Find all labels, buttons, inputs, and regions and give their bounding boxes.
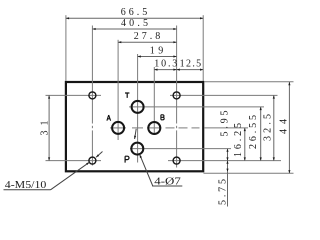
svg-text:5.75: 5.75 (217, 179, 228, 205)
extension line: plate right edge up (for 66.5 / 12.5) (202, 15, 204, 81)
dimension 16.25 line (right) (244, 128, 246, 161)
mounting hole top-right (173, 92, 180, 99)
label 4-M5/10 far-side arrow through hole (96, 152, 102, 158)
label 4-Ø7 far-side arrow above P (135, 129, 137, 139)
svg-text:27.8: 27.8 (134, 31, 161, 42)
extension line: plate bottom edge to the right (for 44 / 5.75) (204, 172, 294, 174)
label 4-Ø7 underline (152, 185, 182, 187)
mounting hole top-left (89, 92, 96, 99)
port letter T (125, 93, 129, 98)
centerline: left mounting holes vertical (x=92.4) (91, 26, 93, 124)
svg-text:4-M5/10: 4-M5/10 (5, 179, 47, 191)
port letter A (107, 115, 111, 121)
dimension 5.75 tail (227, 172, 229, 207)
svg-text:66.5: 66.5 (121, 7, 148, 18)
dimension 26.55 line (right) (260, 107, 262, 161)
svg-text:26.55: 26.55 (248, 115, 259, 149)
dimension 10.3 line (154, 69, 176, 71)
centerline: port B vertical (x=154.3) (153, 67, 155, 135)
centerline: ports A/B horizontal dashed (y=127.9) (110, 127, 126, 129)
mounting hole bottom-left (89, 157, 96, 164)
centerline: port A vertical (x=118.1) (117, 40, 119, 140)
label 4-Ø7 leader to port hole P (140, 155, 153, 186)
extension line: plate top edge to the right (for 44) (205, 81, 294, 83)
port hole A (112, 122, 124, 134)
svg-text:12.5: 12.5 (180, 58, 202, 69)
port hole B (148, 122, 160, 134)
port hole P (131, 143, 143, 155)
centerline: right mounting holes vertical (x=176.6) (176, 26, 178, 124)
plate body outline (66, 82, 203, 171)
svg-text:10.3: 10.3 (154, 58, 177, 69)
dimension 27.8 line (118, 41, 177, 43)
centerline: bottom mounting holes horizontal left part (46, 160, 102, 162)
centerline: ports T/P vertical (x=137.6) (137, 54, 139, 163)
dimension 5.75 line (right) (227, 161, 229, 172)
dimension 66.5 line (66, 17, 203, 19)
port hole T (132, 101, 144, 113)
dimension 32.5 line (right) (273, 95, 275, 160)
svg-text:32.5: 32.5 (262, 114, 273, 141)
label 4-M5/10 leader to bottom-left hole (51, 162, 90, 190)
centerline: top mounting holes horizontal right extension (170, 94, 278, 96)
svg-text:19: 19 (150, 45, 164, 56)
dimension 44 line (right) (288, 82, 290, 173)
dimension 31 line (left) (48, 95, 50, 160)
port letter P (125, 156, 129, 162)
mounting hole bottom-right (173, 157, 180, 164)
dimension 5.95 line (right) (227, 149, 229, 161)
centerline: top mounting holes horizontal (y=95.4) left part (46, 94, 102, 96)
centerline: bottom mounting holes horizontal right extension (168, 160, 281, 162)
extension line: plate left edge up (for 66.5) (65, 15, 67, 81)
svg-text:44: 44 (278, 119, 289, 134)
svg-text:5.95: 5.95 (219, 111, 230, 137)
dimension 12.5 line (177, 69, 204, 71)
dimension 19 line (138, 56, 177, 58)
dimension 40.5 line (92, 28, 176, 30)
centerline: port P horizontal with right extension (y=148.6) (130, 148, 231, 150)
centerline: port T horizontal with right extension (y=106.9) (129, 106, 264, 108)
label 4-M5/10 underline (4, 189, 51, 191)
svg-text:40.5: 40.5 (121, 18, 148, 29)
svg-text:16.25: 16.25 (233, 123, 244, 157)
port letter B (161, 115, 164, 120)
